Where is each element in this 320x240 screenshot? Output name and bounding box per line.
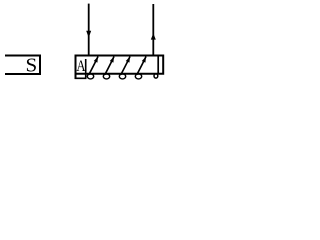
svg-text:S: S <box>26 55 38 76</box>
svg-text:A: A <box>76 58 86 76</box>
